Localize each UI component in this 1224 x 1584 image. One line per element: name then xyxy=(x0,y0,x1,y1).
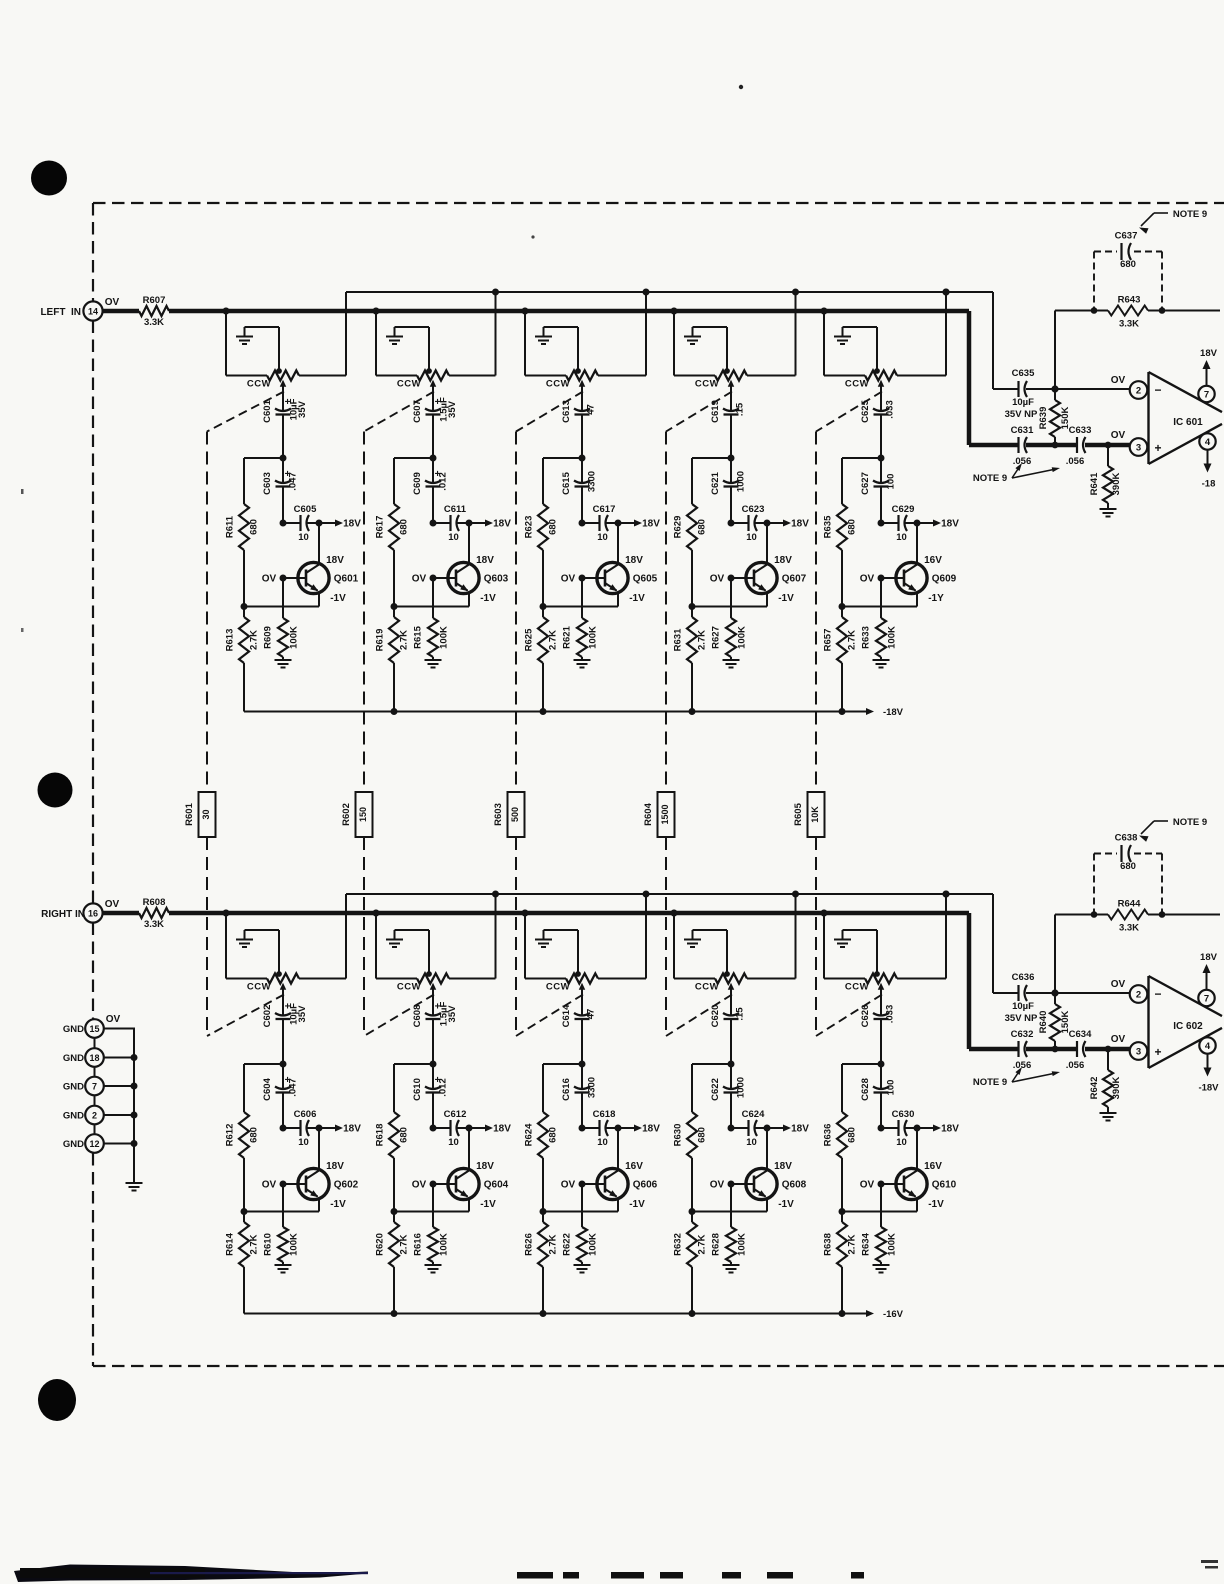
resistor R638 xyxy=(823,1212,858,1314)
wire emitter stage 3 L xyxy=(540,603,619,610)
svg-text:R633: R633 xyxy=(861,626,872,649)
svg-text:100K: 100K xyxy=(439,1233,450,1256)
wire emitter stage 2 L xyxy=(391,603,470,610)
svg-text:R621: R621 xyxy=(562,625,573,648)
resistor R612 xyxy=(225,1064,260,1212)
svg-text:680: 680 xyxy=(847,1127,858,1143)
svg-text:R642: R642 xyxy=(1089,1077,1100,1100)
svg-text:R638: R638 xyxy=(823,1233,834,1256)
svg-text:1000: 1000 xyxy=(736,471,747,492)
svg-text:680: 680 xyxy=(1120,259,1136,270)
svg-text:1000: 1000 xyxy=(736,1077,747,1098)
svg-text:CCW: CCW xyxy=(695,379,719,390)
resistor R616 xyxy=(413,1184,450,1265)
capacitor C626 xyxy=(860,994,896,1065)
svg-text:-1V: -1V xyxy=(629,1199,645,1210)
slider dashed track stage 5 xyxy=(815,432,817,1037)
svg-text:.056: .056 xyxy=(1066,1060,1085,1071)
svg-text:R614: R614 xyxy=(225,1232,236,1255)
svg-text:R657: R657 xyxy=(823,629,834,652)
svg-text:18V: 18V xyxy=(493,1124,511,1135)
resistor R601 xyxy=(184,792,216,837)
capacitor C618 xyxy=(579,1109,622,1148)
potentiometer stage 3 R (CCW) xyxy=(546,971,598,993)
slide linkage dashed stage 4 L xyxy=(666,392,732,432)
svg-text:C615: C615 xyxy=(561,471,572,494)
wire pot to feedback bus stage 2 R xyxy=(449,891,499,979)
wire input to pot stage 2 L xyxy=(373,308,418,376)
resistor R603 xyxy=(493,792,525,837)
resistor R613 xyxy=(225,607,260,712)
resistor R632 xyxy=(673,1212,708,1314)
wire feedback bus to C635 xyxy=(943,289,1019,390)
node J1 stage 4 R xyxy=(692,1061,735,1068)
potentiometer stage 2 L (CCW) xyxy=(397,368,449,390)
svg-text:3: 3 xyxy=(1136,1047,1141,1058)
svg-text:18V: 18V xyxy=(326,1161,344,1172)
svg-text:C607: C607 xyxy=(412,400,423,423)
svg-text:GND: GND xyxy=(63,1053,84,1064)
svg-text:4: 4 xyxy=(1205,1041,1211,1052)
node GND pin 15 xyxy=(63,1019,104,1038)
svg-text:C624: C624 xyxy=(742,1109,765,1120)
wire input to pot stage 4 L xyxy=(671,308,716,376)
transistor Q601 xyxy=(262,523,359,607)
svg-text:-1V: -1V xyxy=(928,1199,944,1210)
power arrow 18V stage 2 L xyxy=(469,519,511,530)
svg-text:Q609: Q609 xyxy=(932,574,957,585)
wire feedback line xyxy=(1052,911,1221,996)
svg-text:C628: C628 xyxy=(860,1078,871,1101)
svg-text:47: 47 xyxy=(586,1009,597,1020)
svg-text:16V: 16V xyxy=(625,1161,643,1172)
node J1 stage 2 R xyxy=(394,1061,437,1068)
svg-text:CCW: CCW xyxy=(397,982,421,993)
capacitor C608 xyxy=(412,994,458,1065)
transistor Q609 xyxy=(860,523,957,607)
svg-text:680: 680 xyxy=(697,1127,708,1143)
capacitor C632 xyxy=(969,1029,1033,1071)
svg-text:16: 16 xyxy=(88,909,98,919)
ground pot stage 3 L xyxy=(535,327,578,371)
svg-text:-1V: -1V xyxy=(778,1199,794,1210)
ground pot stage 4 R xyxy=(684,930,727,974)
ground pot stage 3 R xyxy=(535,930,578,974)
ground R634 xyxy=(873,1265,890,1273)
svg-text:390K: 390K xyxy=(1111,473,1122,496)
svg-text:R608: R608 xyxy=(143,897,166,908)
wire emitter stage 4 L xyxy=(689,603,768,610)
svg-text:10K: 10K xyxy=(810,806,820,823)
svg-text:18V: 18V xyxy=(343,1124,361,1135)
capacitor C627 xyxy=(860,458,897,523)
potentiometer stage 4 R (CCW) xyxy=(695,971,747,993)
wire pot to feedback bus stage 1 L xyxy=(299,292,346,376)
svg-text:10µF: 10µF xyxy=(1012,1001,1034,1012)
svg-text:18V: 18V xyxy=(625,555,643,566)
wire GND pin stubs xyxy=(94,1038,96,1134)
resistor R633 xyxy=(861,578,898,660)
svg-text:+: + xyxy=(1154,441,1161,455)
slide linkage dashed stage 5 R xyxy=(816,995,882,1037)
svg-text:C637: C637 xyxy=(1115,231,1138,242)
svg-text:R635: R635 xyxy=(823,515,834,538)
svg-text:10: 10 xyxy=(597,1137,608,1148)
svg-text:12: 12 xyxy=(89,1139,99,1149)
power arrow 18V stage 4 L xyxy=(767,519,809,530)
power arrow 18V stage 1 L xyxy=(319,519,361,530)
capacitor C624 xyxy=(728,1109,771,1148)
resistor R619 xyxy=(375,607,410,712)
svg-text:.15: .15 xyxy=(735,402,746,416)
power arrow 18V stage 3 L xyxy=(618,519,660,530)
capacitor C634 xyxy=(1026,1029,1130,1071)
svg-text:C612: C612 xyxy=(444,1109,467,1120)
resistor R644 xyxy=(1094,899,1162,934)
slide linkage dashed stage 3 R xyxy=(516,995,583,1037)
svg-text:R605: R605 xyxy=(793,802,804,825)
svg-text:R602: R602 xyxy=(341,803,352,826)
svg-text:CCW: CCW xyxy=(845,982,869,993)
power arrow 18V stage 3 R xyxy=(618,1124,660,1135)
svg-text:150: 150 xyxy=(358,807,368,822)
svg-text:3.3K: 3.3K xyxy=(144,919,164,930)
svg-text:.056: .056 xyxy=(1013,1060,1032,1071)
svg-text:C633: C633 xyxy=(1069,425,1092,436)
transistor Q603 xyxy=(412,523,509,607)
svg-text:14: 14 xyxy=(88,307,98,317)
svg-text:-18: -18 xyxy=(1202,479,1216,490)
wire emitter stage 5 L xyxy=(839,603,918,610)
node GND pin 18 xyxy=(63,1048,104,1067)
svg-text:10: 10 xyxy=(448,1137,459,1148)
capacitor C637 (dashed box) xyxy=(1094,231,1162,311)
svg-text:R618: R618 xyxy=(375,1124,386,1147)
svg-text:C602: C602 xyxy=(262,1005,273,1028)
svg-text:680: 680 xyxy=(697,519,708,535)
ground R621 xyxy=(574,660,591,668)
ground R633 xyxy=(873,660,890,668)
svg-text:100K: 100K xyxy=(588,626,599,649)
svg-text:OV: OV xyxy=(1111,375,1126,386)
svg-text:-1V: -1V xyxy=(330,1199,346,1210)
node J1 stage 3 L xyxy=(543,455,586,462)
svg-text:C613: C613 xyxy=(561,400,572,423)
svg-text:.033: .033 xyxy=(885,400,896,419)
svg-text:18V: 18V xyxy=(1200,348,1218,359)
svg-text:C627: C627 xyxy=(860,472,871,495)
svg-text:18V: 18V xyxy=(791,519,809,530)
node J1 stage 1 L xyxy=(244,455,287,462)
svg-text:C614: C614 xyxy=(561,1004,572,1027)
capacitor C612 xyxy=(430,1109,473,1148)
capacitor C606 xyxy=(280,1109,323,1148)
capacitor C621 xyxy=(710,458,747,523)
svg-text:18V: 18V xyxy=(941,519,959,530)
wire pot to feedback bus stage 4 L xyxy=(747,289,799,376)
svg-text:C609: C609 xyxy=(412,472,423,495)
svg-text:18V: 18V xyxy=(642,1124,660,1135)
svg-text:100K: 100K xyxy=(439,626,450,649)
power arrow 18V stage 2 R xyxy=(469,1124,511,1135)
wire input to pot stage 5 L xyxy=(821,308,866,376)
svg-text:NOTE 9: NOTE 9 xyxy=(1173,209,1207,220)
svg-text:-1V: -1V xyxy=(629,593,645,604)
capacitor C625 xyxy=(860,391,896,459)
svg-text:+: + xyxy=(1154,1045,1161,1059)
svg-text:RIGHT IN: RIGHT IN xyxy=(41,909,85,920)
svg-text:C638: C638 xyxy=(1115,833,1138,844)
svg-text:OV: OV xyxy=(412,1180,427,1191)
svg-text:.056: .056 xyxy=(1066,456,1085,467)
transistor Q610 xyxy=(860,1128,957,1212)
wire input to pot stage 1 L xyxy=(223,308,268,376)
capacitor C636 xyxy=(1005,972,1038,1024)
svg-text:10µF: 10µF xyxy=(1012,397,1034,408)
svg-text:OV: OV xyxy=(1111,1034,1126,1045)
svg-text:680: 680 xyxy=(399,519,410,535)
svg-text:10: 10 xyxy=(896,1137,907,1148)
wire pot to feedback bus stage 2 L xyxy=(449,289,499,376)
svg-text:R620: R620 xyxy=(375,1233,386,1256)
svg-text:NOTE 9: NOTE 9 xyxy=(973,1077,1007,1088)
svg-text:CCW: CCW xyxy=(247,379,271,390)
svg-text:C621: C621 xyxy=(710,471,721,494)
svg-text:3300: 3300 xyxy=(587,471,598,492)
svg-text:18: 18 xyxy=(89,1053,99,1063)
svg-text:IC 602: IC 602 xyxy=(1173,1021,1203,1032)
svg-text:2.7K: 2.7K xyxy=(847,1234,858,1254)
power arrow 18V stage 4 R xyxy=(767,1124,809,1135)
resistor R634 xyxy=(861,1184,898,1265)
wire pot to feedback bus stage 5 R xyxy=(897,891,950,979)
resistor R608 xyxy=(139,897,169,930)
wire -18V bus L xyxy=(244,707,904,718)
resistor R611 xyxy=(225,458,260,607)
svg-text:2: 2 xyxy=(1136,386,1141,397)
svg-text:R622: R622 xyxy=(562,1233,573,1256)
svg-text:3.3K: 3.3K xyxy=(144,317,164,328)
wire feedback bus R xyxy=(346,893,993,895)
svg-text:R617: R617 xyxy=(375,516,386,539)
slide linkage dashed stage 4 R xyxy=(666,995,732,1037)
capacitor C629 xyxy=(878,504,921,543)
capacitor C609 xyxy=(412,458,449,523)
capacitor C604 xyxy=(262,1064,299,1128)
svg-text:10: 10 xyxy=(448,532,459,543)
svg-text:18V: 18V xyxy=(1200,952,1218,963)
svg-text:10: 10 xyxy=(298,1137,309,1148)
svg-text:GND: GND xyxy=(63,1082,84,1093)
svg-text:R623: R623 xyxy=(524,516,535,539)
capacitor C617 xyxy=(579,504,622,543)
wire emitter stage 3 R xyxy=(540,1208,619,1215)
wire emitter stage 2 R xyxy=(391,1208,470,1215)
ground pot stage 4 L xyxy=(684,327,727,371)
svg-text:3.3K: 3.3K xyxy=(1119,923,1139,934)
resistor R629 xyxy=(673,458,708,607)
svg-text:7: 7 xyxy=(1204,994,1209,1005)
svg-text:C617: C617 xyxy=(593,504,616,515)
svg-text:CCW: CCW xyxy=(695,982,719,993)
svg-text:1500: 1500 xyxy=(660,804,670,824)
svg-text:R625: R625 xyxy=(524,628,535,651)
svg-text:C604: C604 xyxy=(262,1077,273,1100)
svg-text:OV: OV xyxy=(106,1014,121,1025)
svg-text:18V: 18V xyxy=(493,519,511,530)
wire pot to feedback bus stage 5 L xyxy=(897,289,950,376)
svg-text:C626: C626 xyxy=(860,1005,871,1028)
svg-text:10: 10 xyxy=(746,532,757,543)
svg-text:OV: OV xyxy=(860,1180,875,1191)
ground pot stage 1 R xyxy=(236,930,279,974)
svg-text:3300: 3300 xyxy=(587,1077,598,1098)
slide linkage dashed stage 3 L xyxy=(516,392,583,432)
resistor R617 xyxy=(375,458,410,607)
svg-text:OV: OV xyxy=(412,574,427,585)
wire left input bus xyxy=(103,308,970,445)
wire GND pins rail xyxy=(105,1028,138,1183)
pin 4 IC601 + -18V xyxy=(1199,433,1215,489)
svg-text:CCW: CCW xyxy=(247,982,271,993)
svg-text:10: 10 xyxy=(298,532,309,543)
wire pot to feedback bus stage 4 R xyxy=(747,891,799,979)
svg-text:R644: R644 xyxy=(1118,899,1141,910)
power arrow 18V stage 5 R xyxy=(917,1124,959,1135)
pin 2 IC602 xyxy=(1130,985,1148,1003)
svg-text:C629: C629 xyxy=(892,504,915,515)
capacitor C623 xyxy=(728,504,771,543)
svg-text:.056: .056 xyxy=(1013,456,1032,467)
svg-text:NOTE 9: NOTE 9 xyxy=(973,473,1007,484)
svg-text:680: 680 xyxy=(1120,861,1136,872)
svg-text:C636: C636 xyxy=(1012,972,1035,983)
svg-text:R607: R607 xyxy=(143,295,166,306)
svg-text:C635: C635 xyxy=(1012,368,1035,379)
svg-text:-16V: -16V xyxy=(883,1309,904,1320)
resistor R627 xyxy=(711,578,748,660)
svg-text:R628: R628 xyxy=(711,1233,722,1256)
svg-text:-1V: -1V xyxy=(480,1199,496,1210)
svg-text:-18V: -18V xyxy=(883,707,904,718)
capacitor C605 xyxy=(280,504,323,543)
node J1 stage 2 L xyxy=(394,455,437,462)
transistor Q605 xyxy=(561,523,658,607)
svg-text:.012: .012 xyxy=(438,1078,449,1097)
pin 7 IC602 + 18V xyxy=(1198,952,1217,1006)
wire pot to feedback bus stage 3 L xyxy=(598,289,650,376)
resistor R626 xyxy=(524,1212,559,1314)
op-amp IC602 xyxy=(1149,976,1223,1068)
svg-text:R601: R601 xyxy=(184,802,195,825)
capacitor C611 xyxy=(430,504,473,543)
node GND pin 7 xyxy=(63,1077,104,1096)
wire input to pot stage 4 R xyxy=(671,910,716,979)
potentiometer stage 5 R (CCW) xyxy=(845,971,897,993)
svg-text:100K: 100K xyxy=(737,1233,748,1256)
svg-text:18V: 18V xyxy=(774,1161,792,1172)
transistor Q602 xyxy=(262,1128,359,1212)
svg-text:CCW: CCW xyxy=(546,982,570,993)
svg-text:35V: 35V xyxy=(447,1005,458,1023)
svg-text:C611: C611 xyxy=(444,504,467,515)
svg-text:OV: OV xyxy=(105,899,120,910)
capacitor C614 xyxy=(561,994,597,1065)
ground pot stage 5 R xyxy=(834,930,877,974)
svg-text:100K: 100K xyxy=(588,1233,599,1256)
svg-text:Q608: Q608 xyxy=(782,1180,807,1191)
svg-text:CCW: CCW xyxy=(845,379,869,390)
svg-text:R631: R631 xyxy=(673,628,684,651)
svg-text:7: 7 xyxy=(1204,390,1209,401)
resistor R657 xyxy=(823,607,858,712)
svg-text:2.7K: 2.7K xyxy=(399,630,410,650)
svg-text:.012: .012 xyxy=(438,472,449,491)
transistor Q607 xyxy=(710,523,807,607)
svg-text:CCW: CCW xyxy=(397,379,421,390)
svg-text:C610: C610 xyxy=(412,1078,423,1101)
capacitor C607 xyxy=(412,391,458,459)
capacitor C638 (dashed box) xyxy=(1094,833,1162,915)
svg-text:2.7K: 2.7K xyxy=(249,1234,260,1254)
svg-text:C625: C625 xyxy=(860,399,871,422)
svg-text:OV: OV xyxy=(1111,979,1126,990)
ground R609 xyxy=(275,660,292,668)
svg-text:Q602: Q602 xyxy=(334,1180,359,1191)
svg-text:GND: GND xyxy=(63,1139,84,1150)
svg-text:R612: R612 xyxy=(225,1124,236,1147)
slide linkage dashed stage 5 L xyxy=(816,392,882,432)
svg-text:-1V: -1V xyxy=(330,593,346,604)
svg-text:18V: 18V xyxy=(941,1124,959,1135)
resistor R642 xyxy=(1089,1049,1122,1112)
wire input to pot stage 3 R xyxy=(522,910,567,979)
wire -18V bus R xyxy=(244,1309,904,1320)
pin 7 IC601 + 18V xyxy=(1198,348,1217,402)
svg-text:18V: 18V xyxy=(476,1161,494,1172)
ground R615 xyxy=(425,660,442,668)
capacitor C620 xyxy=(710,994,746,1065)
svg-text:Q601: Q601 xyxy=(334,574,359,585)
slider dashed track stage 3 xyxy=(515,432,517,1037)
svg-text:-1Y: -1Y xyxy=(928,593,944,604)
svg-text:C601: C601 xyxy=(262,399,273,422)
svg-text:R611: R611 xyxy=(225,515,236,538)
capacitor C622 xyxy=(710,1064,747,1128)
node J1 stage 5 R xyxy=(842,1061,885,1068)
svg-text:100K: 100K xyxy=(887,626,898,649)
wire emitter stage 1 R xyxy=(241,1208,320,1215)
svg-text:100: 100 xyxy=(886,1080,897,1096)
svg-text:35V: 35V xyxy=(447,400,458,418)
svg-text:R626: R626 xyxy=(524,1233,535,1256)
capacitor C615 xyxy=(561,458,598,523)
capacitor C619 xyxy=(710,391,746,459)
svg-text:NOTE 9: NOTE 9 xyxy=(1173,817,1207,828)
wire pot to feedback bus stage 1 R xyxy=(299,894,346,979)
svg-text:390K: 390K xyxy=(1111,1077,1122,1100)
svg-text:R640: R640 xyxy=(1038,1011,1049,1034)
svg-text:OV: OV xyxy=(262,574,277,585)
resistor R618 xyxy=(375,1064,410,1212)
svg-text:10: 10 xyxy=(896,532,907,543)
wire to pin 2 node xyxy=(1026,375,1130,393)
svg-text:30: 30 xyxy=(201,809,211,819)
node GND pin 2 xyxy=(63,1106,104,1125)
svg-text:16V: 16V xyxy=(924,1161,942,1172)
svg-text:35V: 35V xyxy=(297,400,308,418)
wire pot to feedback bus stage 3 R xyxy=(598,891,650,979)
